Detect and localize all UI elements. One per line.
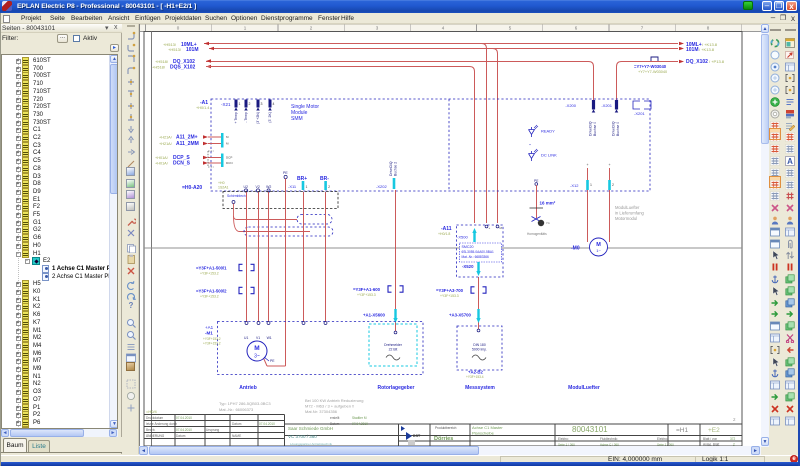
svg-text:W2: W2 <box>266 185 271 189</box>
svg-text:07.04.2010: 07.04.2010 <box>259 422 275 426</box>
svg-text:372: 372 <box>730 437 736 441</box>
svg-text:1: 1 <box>590 183 592 187</box>
svg-text:DriveCliQ: DriveCliQ <box>589 121 593 136</box>
svg-text:DCN: DCN <box>226 161 233 165</box>
svg-text:+: + <box>609 163 611 167</box>
svg-text:letzte Änderung durch: letzte Änderung durch <box>146 422 177 426</box>
svg-text:1: 1 <box>306 185 308 189</box>
svg-text:-X202: -X202 <box>376 184 387 189</box>
svg-text:+: + <box>489 226 491 230</box>
svg-text:in Lieferumfang: in Lieferumfang <box>615 211 645 216</box>
svg-text:+ Temp: + Temp <box>234 112 238 124</box>
svg-text:Bei 100 KW Antrieb Reduzierung: Bei 100 KW Antrieb Reduzierung <box>305 398 363 403</box>
svg-text:-X12: -X12 <box>570 183 579 188</box>
svg-text:M: M <box>254 345 259 352</box>
svg-text:2: 2 <box>249 102 251 106</box>
svg-text:-X201: -X201 <box>634 111 645 116</box>
svg-text:=Y3F+A1-600: =Y3F+A1-600 <box>353 287 381 292</box>
svg-text:U2: U2 <box>244 185 249 189</box>
svg-text:Datum: Datum <box>232 422 242 426</box>
svg-text:READY: READY <box>541 129 555 134</box>
svg-text:+H518/: +H518/ <box>155 59 169 64</box>
svg-text:=Y7+Y7-W03040: =Y7+Y7-W03040 <box>634 64 667 69</box>
svg-text:+Y7+Y7-W03040: +Y7+Y7-W03040 <box>638 70 667 74</box>
svg-text:+H01A/: +H01A/ <box>155 162 169 166</box>
svg-text:4: 4 <box>273 102 275 106</box>
svg-text:V2: V2 <box>256 185 260 189</box>
svg-text:=Y3F+A1-500/2: =Y3F+A1-500/2 <box>196 289 227 294</box>
svg-text:+Y3F+153.2: +Y3F+153.2 <box>200 272 219 276</box>
svg-text:80043101: 80043101 <box>572 425 608 434</box>
svg-text:+Y3F+153.3: +Y3F+153.3 <box>440 294 459 298</box>
svg-text:-M1: -M1 <box>205 331 213 336</box>
svg-text:+H513/: +H513/ <box>168 47 182 52</box>
svg-text:+H0/1.8: +H0/1.8 <box>438 232 450 236</box>
svg-text:2: 2 <box>612 183 614 187</box>
svg-text:+Y3F+153.2: +Y3F+153.2 <box>203 342 221 346</box>
svg-text:A11_2MM: A11_2MM <box>176 141 199 147</box>
svg-text:=Y3F+A1-500/1: =Y3F+A1-500/1 <box>196 266 227 271</box>
svg-text:- Temp: - Temp <box>244 112 248 123</box>
svg-text:Saar Schmiede GmbH: Saar Schmiede GmbH <box>288 426 333 431</box>
svg-text:V1: V1 <box>256 336 260 340</box>
svg-text:Dörries: Dörries <box>434 436 453 442</box>
svg-text:+Y3F+153.2: +Y3F+153.2 <box>200 295 219 299</box>
svg-text:Bearb.: Bearb. <box>146 428 156 432</box>
svg-text:1: 1 <box>239 102 241 106</box>
svg-text:-X520: -X520 <box>462 264 474 269</box>
svg-text:W1: W1 <box>267 336 272 340</box>
svg-text:=H0-A20: =H0-A20 <box>182 185 202 191</box>
svg-text:Produktbereich: Produktbereich <box>435 426 457 430</box>
svg-text:DCN_S: DCN_S <box>173 161 191 167</box>
svg-text:SMC20: SMC20 <box>462 245 474 249</box>
svg-text:-X201: -X201 <box>601 103 612 108</box>
svg-text:Elektro:: Elektro: <box>657 437 668 441</box>
svg-text:Achse C1 Master: Achse C1 Master <box>472 425 503 430</box>
svg-text:+H01A/: +H01A/ <box>155 156 169 160</box>
svg-text:+Y3F+153.2: +Y3F+153.2 <box>203 337 221 341</box>
svg-text:+A2-B2: +A2-B2 <box>468 370 484 375</box>
svg-text:Typ: 1PH7 286-5QB03-0BC3: Typ: 1PH7 286-5QB03-0BC3 <box>219 401 271 406</box>
svg-text:1~: 1~ <box>596 248 601 253</box>
svg-text:PE: PE <box>546 221 550 225</box>
svg-text:VC 3700 / 360: VC 3700 / 360 <box>288 434 317 439</box>
svg-text:22 Bit: 22 Bit <box>389 348 398 352</box>
svg-text:07.04.2010: 07.04.2010 <box>176 428 192 432</box>
svg-text:(3`+2N): (3`+2N) <box>256 112 260 124</box>
svg-text:+H0: +H0 <box>218 181 225 185</box>
svg-text:PE: PE <box>283 171 288 175</box>
svg-text:DQ_X102: DQ_X102 <box>686 59 708 65</box>
svg-text:Fluidtechnik:: Fluidtechnik: <box>600 437 618 441</box>
svg-text:ModulLuefter: ModulLuefter <box>615 205 640 210</box>
svg-text:+A1: +A1 <box>205 325 214 330</box>
svg-text:+H0/1.4: +H0/1.4 <box>196 106 209 110</box>
svg-text:erstellt: erstellt <box>330 416 340 420</box>
svg-text:07.04.2010: 07.04.2010 <box>176 416 192 420</box>
svg-text:Mat.-Nr.: 66883366: Mat.-Nr.: 66883366 <box>462 255 490 259</box>
svg-text:+A3-X5700: +A3-X5700 <box>449 313 471 318</box>
svg-text:DC LINK: DC LINK <box>541 153 557 158</box>
svg-text:Druckdatum: Druckdatum <box>146 416 164 420</box>
svg-text:Homogenitäts: Homogenitäts <box>527 232 547 236</box>
svg-text:M72 - M63 / 3 + aufgeben !!: M72 - M63 / 3 + aufgeben !! <box>305 404 354 409</box>
svg-text:Stadtler M: Stadtler M <box>352 416 367 420</box>
svg-text:Mat.Nr: 37304356: Mat.Nr: 37304356 <box>305 409 338 414</box>
svg-text:=H0/4: =H0/4 <box>146 409 158 414</box>
svg-text:+H21A/: +H21A/ <box>159 136 173 140</box>
svg-text:-X11: -X11 <box>288 184 297 189</box>
svg-text:101M: 101M <box>186 47 199 53</box>
svg-text:SMM: SMM <box>291 116 303 122</box>
svg-text:3: 3 <box>261 102 263 106</box>
svg-text:ModulLuefter: ModulLuefter <box>568 385 600 391</box>
svg-text:Schirmblech: Schirmblech <box>227 194 246 198</box>
svg-text:101M: 101M <box>686 47 699 53</box>
svg-text:Mat.-Nr.: 66006373: Mat.-Nr.: 66006373 <box>219 407 254 412</box>
svg-text:NAME: NAME <box>232 434 241 438</box>
svg-text:Rotorlagegeber: Rotorlagegeber <box>378 385 415 391</box>
svg-text:-X21: -X21 <box>221 102 231 107</box>
svg-text:DIN 180: DIN 180 <box>473 343 486 347</box>
svg-text:+H21A/: +H21A/ <box>159 142 173 146</box>
svg-text:/ +P13.8: / +P13.8 <box>709 59 725 64</box>
svg-text:Motormodul: Motormodul <box>615 216 637 221</box>
svg-text:Planscheibe: Planscheibe <box>472 431 495 436</box>
svg-text:5000 Imp.: 5000 Imp. <box>472 348 487 352</box>
svg-text:+H518/: +H518/ <box>152 65 166 70</box>
svg-text:-M0: -M0 <box>571 246 580 252</box>
svg-text:DCP: DCP <box>226 156 232 160</box>
svg-text:=Y3F+A3-700: =Y3F+A3-700 <box>436 288 464 293</box>
svg-text:DriveCliQ: DriveCliQ <box>612 121 616 136</box>
svg-text:+Y3F+153.3: +Y3F+153.3 <box>357 293 376 297</box>
svg-text:Ursprung: Ursprung <box>206 428 219 432</box>
svg-text:(3` 2K): (3` 2K) <box>268 112 272 123</box>
svg-text:Buchse 0: Buchse 0 <box>616 122 620 136</box>
svg-text:Messsystem: Messsystem <box>465 385 495 391</box>
svg-text:+A1-X5600: +A1-X5600 <box>363 313 385 318</box>
svg-text:3~: 3~ <box>254 354 260 360</box>
svg-text:PE: PE <box>270 359 275 363</box>
svg-text:Drehmelder: Drehmelder <box>384 343 403 347</box>
svg-text:Buchse 0: Buchse 0 <box>593 122 597 136</box>
svg-text:Buchse 2: Buchse 2 <box>394 162 398 176</box>
svg-text:16 mm²: 16 mm² <box>540 201 556 206</box>
svg-text:=H1: =H1 <box>676 427 688 434</box>
svg-text:-X500: -X500 <box>457 235 468 240</box>
svg-text:Elektro:: Elektro: <box>558 437 569 441</box>
svg-text:6SL3055-0AA00-5BA1: 6SL3055-0AA00-5BA1 <box>462 250 494 254</box>
svg-text:DriveCliQ: DriveCliQ <box>389 161 393 176</box>
svg-text:/ +K13.8: / +K13.8 <box>699 47 715 52</box>
svg-text:+: + <box>587 163 589 167</box>
svg-text:ÄNDERUNG: ÄNDERUNG <box>146 434 165 438</box>
svg-text:2: 2 <box>328 185 330 189</box>
svg-text:Blatt / von: Blatt / von <box>703 437 717 441</box>
svg-text:A11_2M+: A11_2M+ <box>176 135 198 141</box>
svg-text:+Y3F+153.4: +Y3F+153.4 <box>466 375 484 379</box>
svg-text:-X200: -X200 <box>565 103 576 108</box>
svg-text:U1: U1 <box>244 336 248 340</box>
svg-text:07.04.2010: 07.04.2010 <box>352 422 368 426</box>
svg-text:DST: DST <box>413 434 421 438</box>
svg-text:1S2A1: 1S2A1 <box>218 186 229 190</box>
svg-text:+E2: +E2 <box>708 427 720 434</box>
svg-text:Datum: Datum <box>176 434 186 438</box>
svg-text:Antrieb: Antrieb <box>239 385 257 391</box>
svg-text:DQS_X102: DQS_X102 <box>170 65 196 71</box>
